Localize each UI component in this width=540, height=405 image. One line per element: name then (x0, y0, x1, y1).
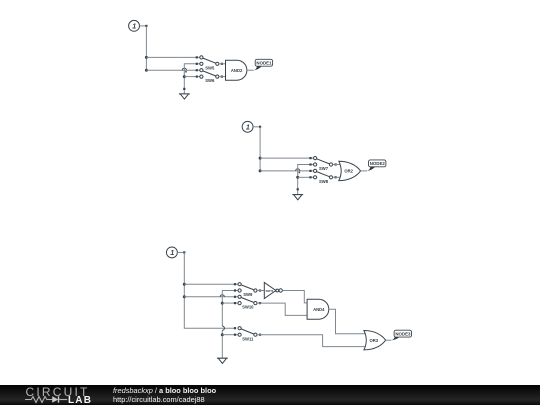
wire source to corner (140, 25, 148, 27)
ground branch wire (SW9 lower throw down to ground), vertical hops over SW11 wire (222, 289, 238, 357)
ground branch wire (SW5 lower throw down to ground) (184, 63, 200, 94)
svg-text:NODE2: NODE2 (370, 161, 386, 166)
junction at row A branch (183, 283, 186, 286)
svg-text:SW6: SW6 (205, 78, 215, 83)
switch SW6 (200, 69, 223, 84)
ground branch wire (SW7 lower throw down to ground) (298, 163, 314, 194)
junction at row 1 branch (145, 56, 148, 59)
svg-text:NODE1: NODE1 (256, 60, 272, 65)
footer bar (0, 385, 540, 405)
junction at row C branch (183, 295, 186, 298)
switch SW7 (314, 157, 337, 172)
junction at row 1 branch (259, 157, 262, 160)
wire source to corner (177, 251, 185, 253)
switch SW11 (238, 327, 261, 342)
switch SW10 (238, 295, 261, 309)
junction SW10 lower branch (221, 302, 224, 305)
svg-text:AND4: AND4 (313, 307, 325, 312)
wire to SW8 lower throw (298, 176, 314, 178)
svg-text:SW7: SW7 (319, 166, 329, 171)
CircuitLab logo wordmark (26, 385, 90, 399)
wire to SW6 lower throw (184, 76, 200, 78)
node flag NODE3 (391, 330, 411, 340)
node endpoint at row 3 (145, 69, 148, 72)
digital source 1 (circuit 3) (166, 247, 177, 258)
wire OR3 output (386, 339, 392, 341)
AND gate AND4 (307, 299, 329, 319)
switch SW9 (238, 283, 261, 297)
junction SW8 lower branch (296, 176, 299, 179)
wire to SW10 lower throw (222, 302, 238, 304)
wire NOT1 output to AND4 input 1 (282, 291, 307, 303)
OR gate OR3 (364, 331, 386, 350)
svg-text:1: 1 (246, 122, 250, 131)
svg-text:AND2: AND2 (231, 68, 243, 73)
svg-text:1: 1 (170, 248, 174, 257)
wire SW6 common to AND2 input 2 (219, 76, 226, 78)
node flag NODE1 (254, 59, 273, 70)
svg-text:1: 1 (132, 21, 136, 30)
svg-text:NOT1: NOT1 (266, 289, 274, 293)
svg-text:NODE3: NODE3 (395, 331, 411, 336)
wire to SW10 upper throw (hops over ground line) (184, 295, 238, 298)
svg-text:OR2: OR2 (344, 169, 353, 174)
wire SW5 common to AND2 input 1 (219, 63, 226, 65)
footer text line 2 (113, 395, 205, 404)
wire to SW6 upper throw (hops over ground line) (146, 68, 199, 72)
wire to SW5 upper throw (146, 56, 199, 58)
terminal square SW11 upper wire (234, 327, 236, 329)
node endpoint at row 3 (259, 169, 262, 172)
wire SW7 common to OR2 input 1 (333, 164, 341, 166)
digital source 1 (circuit 2) (242, 121, 253, 132)
wire to SW9 upper throw (184, 283, 238, 285)
svg-text:SW11: SW11 (242, 336, 254, 341)
junction SW6 lower branch (183, 75, 186, 78)
svg-text:SW8: SW8 (319, 179, 329, 184)
svg-text:SW10: SW10 (242, 305, 254, 310)
svg-text:SW9: SW9 (243, 292, 253, 297)
NOT gate NOT1 (264, 283, 282, 299)
ground (circuit 2) (292, 188, 303, 200)
digital source 1 (circuit 1) (129, 20, 140, 31)
wire to SW8 upper throw (hops over ground line) (260, 169, 313, 173)
footer text line 1 (113, 386, 216, 395)
wire vertical from source (145, 26, 147, 70)
wire AND2 output (247, 69, 254, 71)
wire OR2 output (361, 170, 368, 172)
AND gate AND2 (226, 60, 247, 80)
wire vertical from source (259, 127, 261, 171)
wire SW11 common to OR3 input 2 (257, 335, 365, 347)
wire vertical from source, bends right to SW11 upper throw (184, 252, 235, 328)
switch SW5 (200, 56, 223, 71)
svg-text:SW5: SW5 (205, 65, 215, 70)
wire SW8 common to OR2 input 2 (333, 176, 341, 178)
switch SW8 (314, 169, 337, 184)
wire to SW7 upper throw (260, 157, 313, 159)
node flag NODE2 (367, 160, 386, 171)
wire to SW11 lower throw (222, 334, 238, 336)
ground (circuit 3) (217, 358, 228, 363)
wire AND4 output to OR3 input 1 (329, 309, 366, 334)
wire SW9 common to NOT1 input (257, 290, 264, 292)
junction SW11 lower branch (221, 333, 224, 336)
logo resistor/diode squiggle (24, 394, 72, 405)
wire source to corner (253, 126, 261, 128)
OR gate OR2 (339, 161, 361, 180)
svg-text:OR3: OR3 (369, 338, 378, 343)
wire SW10 common to AND4 input 2 (257, 303, 307, 315)
ground (circuit 1) (179, 88, 190, 99)
